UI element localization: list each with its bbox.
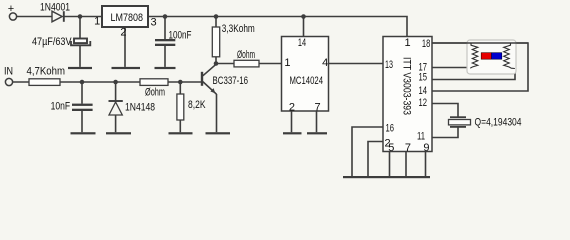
svg-text:11: 11 bbox=[417, 131, 425, 143]
svg-text:18: 18 bbox=[422, 38, 430, 50]
svg-text:1N4001: 1N4001 bbox=[40, 1, 70, 13]
svg-text:Øohm: Øohm bbox=[145, 87, 165, 99]
svg-text:5: 5 bbox=[388, 142, 394, 154]
svg-text:LM7808: LM7808 bbox=[111, 12, 144, 24]
svg-text:7: 7 bbox=[315, 101, 321, 113]
svg-text:7: 7 bbox=[405, 142, 411, 154]
svg-text:47µF/63V: 47µF/63V bbox=[32, 36, 72, 48]
svg-text:4: 4 bbox=[322, 57, 328, 69]
svg-text:15: 15 bbox=[419, 71, 428, 83]
svg-text:Q=4,194304: Q=4,194304 bbox=[475, 116, 522, 128]
svg-text:2: 2 bbox=[120, 26, 126, 38]
svg-text:1N4148: 1N4148 bbox=[125, 101, 155, 113]
svg-text:8,2K: 8,2K bbox=[188, 99, 206, 111]
svg-text:Øohm: Øohm bbox=[237, 49, 255, 61]
svg-text:MC14024: MC14024 bbox=[290, 75, 324, 87]
svg-text:BC337-16: BC337-16 bbox=[213, 75, 249, 87]
svg-text:13: 13 bbox=[385, 59, 393, 71]
svg-text:3,3Kohm: 3,3Kohm bbox=[222, 23, 255, 35]
svg-text:IN: IN bbox=[4, 65, 13, 77]
svg-text:+: + bbox=[8, 3, 14, 15]
svg-text:16: 16 bbox=[386, 123, 395, 135]
svg-text:12: 12 bbox=[419, 97, 428, 109]
svg-text:1: 1 bbox=[284, 57, 290, 69]
svg-text:14: 14 bbox=[298, 37, 306, 49]
svg-text:9: 9 bbox=[423, 142, 429, 154]
svg-text:ITT V3003-393: ITT V3003-393 bbox=[401, 57, 413, 115]
svg-text:3: 3 bbox=[151, 17, 157, 29]
svg-text:1: 1 bbox=[405, 37, 411, 49]
svg-text:4,7Kohm: 4,7Kohm bbox=[27, 65, 66, 77]
svg-text:10nF: 10nF bbox=[51, 101, 71, 113]
svg-text:14: 14 bbox=[419, 85, 428, 97]
svg-text:100nF: 100nF bbox=[169, 29, 192, 41]
svg-text:1: 1 bbox=[94, 16, 100, 28]
svg-text:2: 2 bbox=[289, 101, 295, 113]
